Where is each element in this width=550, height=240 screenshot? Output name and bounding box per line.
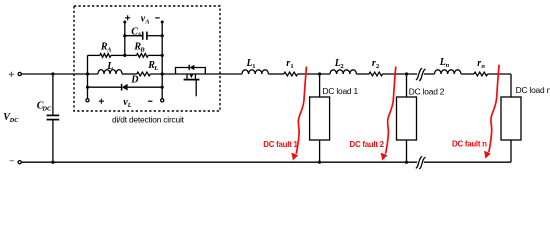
- label vL row: [99, 97, 153, 109]
- svg-text:L: L: [153, 65, 158, 72]
- terminal vL - (open): [161, 99, 164, 102]
- node: right branch joins RB: [161, 54, 164, 57]
- svg-text:DC: DC: [9, 117, 20, 124]
- resistor r1: [284, 72, 298, 76]
- svg-text:B: B: [139, 46, 145, 53]
- break marks bottom rail: [416, 157, 426, 169]
- svg-text:DC load 1: DC load 1: [323, 86, 359, 96]
- junction C_DC bottom: [51, 161, 54, 164]
- label vA row: [125, 14, 160, 26]
- dashed box di/dt detection circuit: [74, 6, 220, 111]
- svg-text:DC: DC: [41, 105, 52, 112]
- wire: [488, 73, 511, 75]
- svg-text:n: n: [446, 62, 450, 69]
- DC fault n arrow: [484, 65, 499, 159]
- diode in bypass loop: [188, 65, 190, 70]
- svg-text:DC fault n: DC fault n: [452, 140, 487, 149]
- svg-text:1: 1: [252, 63, 255, 70]
- diode D row: [88, 86, 122, 88]
- svg-text:A: A: [106, 46, 111, 53]
- DC load 1: [319, 74, 321, 97]
- svg-text:DC fault 2: DC fault 2: [350, 140, 385, 149]
- svg-text:di/dt detection circuit: di/dt detection circuit: [112, 115, 185, 125]
- svg-text:DC fault 1: DC fault 1: [263, 140, 298, 149]
- terminal vL + (open): [86, 99, 89, 102]
- wire: [298, 73, 331, 75]
- junction load 1 top: [318, 72, 321, 75]
- resistor RL on main rail: [122, 73, 137, 75]
- DC fault 2 label: [350, 140, 385, 149]
- node: RA-RB midpoint: [123, 54, 126, 57]
- svg-text:A: A: [136, 31, 141, 38]
- wire top rail left: [22, 73, 99, 75]
- label VDC: [3, 112, 19, 124]
- svg-text:n: n: [481, 63, 485, 70]
- mosfet gate lead: [195, 81, 197, 97]
- node vA - terminal: [161, 21, 164, 24]
- DC fault 1 label: [263, 140, 298, 149]
- capacitor CA: [125, 35, 142, 37]
- DC fault n label: [452, 140, 487, 149]
- break marks top rail: [416, 68, 426, 80]
- svg-text:2: 2: [341, 63, 344, 70]
- svg-text:DC load n: DC load n: [516, 85, 550, 95]
- wire: [383, 73, 418, 75]
- svg-text:D: D: [130, 74, 138, 85]
- wire right branch vertical x=162.2: [161, 22, 163, 99]
- node: right branch joins CA row: [161, 34, 164, 37]
- wire: [424, 73, 435, 75]
- wire middle vertical x=124.8: [124, 22, 126, 55]
- wire: [461, 73, 474, 75]
- capacitor CDC: [52, 74, 54, 115]
- svg-text:L: L: [127, 102, 132, 109]
- junction C_DC top: [51, 72, 54, 75]
- wire left branch vertical x=87.5: [87, 55, 89, 98]
- DC load 2: [406, 74, 408, 97]
- inductor L1: [242, 70, 268, 74]
- DC load n: [510, 74, 512, 97]
- node: right branch joins diode row: [161, 86, 164, 89]
- svg-text:DC load 2: DC load 2: [409, 86, 445, 96]
- svg-text:L: L: [106, 61, 113, 72]
- node: left branch joins diode row: [86, 86, 89, 89]
- mosfet body diode bypass loop: [176, 68, 206, 75]
- node vA + terminal: [123, 21, 126, 24]
- node + terminal top-left: [9, 72, 14, 77]
- node - terminal bottom-left: [10, 160, 14, 161]
- inductor L2: [330, 70, 356, 74]
- node: vA+ branch joins CA row: [123, 34, 126, 37]
- resistor rn: [474, 72, 488, 76]
- wire: [268, 73, 284, 75]
- resistor RB: [125, 54, 137, 56]
- resistor RA: [88, 54, 100, 56]
- svg-text:1: 1: [290, 63, 293, 70]
- mosfet Q: [186, 74, 188, 79]
- resistor r2: [369, 72, 383, 76]
- inductor Ln: [434, 70, 460, 74]
- node: left branch joins top rail: [86, 72, 89, 75]
- svg-text:A: A: [144, 19, 149, 26]
- inductor L on main rail: [98, 70, 122, 74]
- wire bottom rail: [22, 161, 418, 163]
- junction load 2 top: [405, 72, 408, 75]
- wire main rail inside box to mosfet: [150, 73, 242, 75]
- svg-text:2: 2: [376, 63, 379, 70]
- wire: [356, 73, 369, 75]
- DC fault 1 arrow: [291, 67, 306, 161]
- node: right branch joins top rail: [161, 72, 164, 75]
- DC fault 2 arrow: [381, 67, 396, 161]
